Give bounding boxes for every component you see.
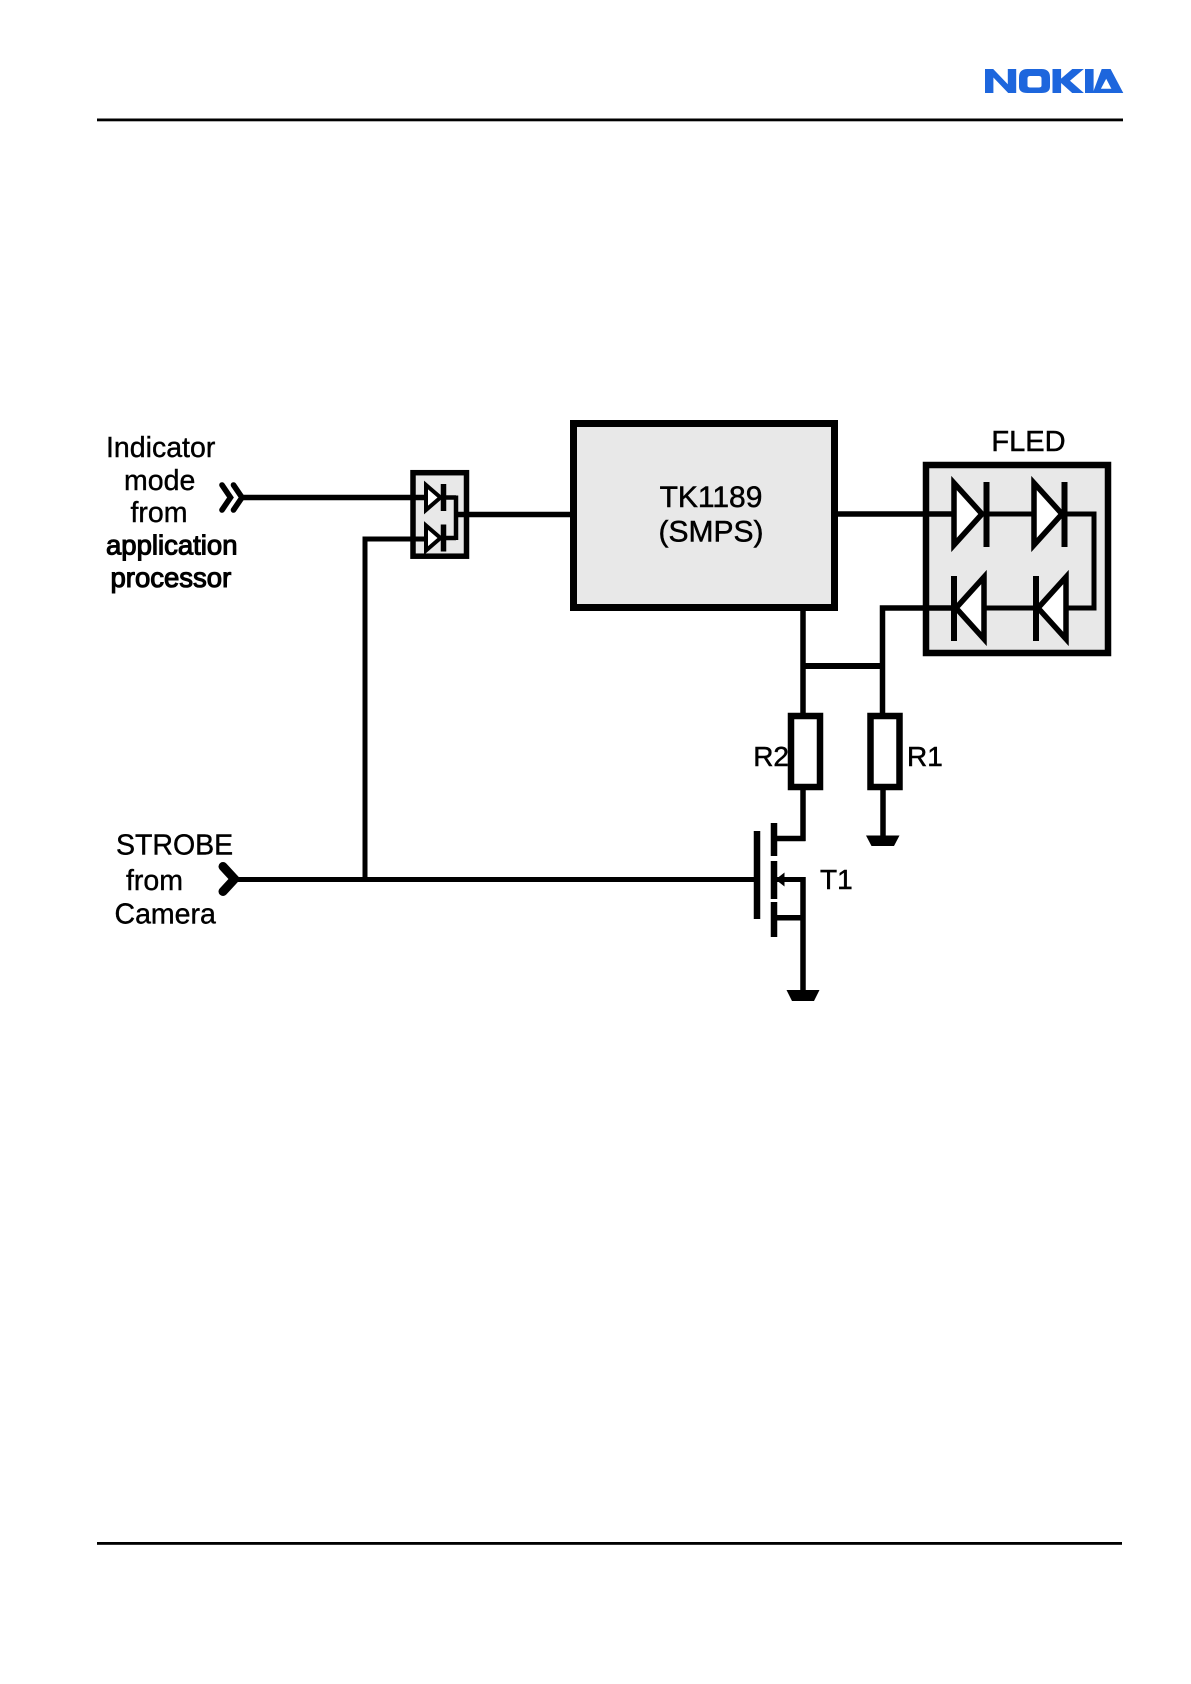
resistor R2 — [791, 716, 820, 787]
LED D3 (top-right) — [1034, 482, 1065, 547]
NOKIA logo — [985, 69, 1123, 93]
svg-text:R2: R2 — [753, 741, 789, 772]
ground (R1) — [866, 836, 900, 847]
footer rule — [97, 1542, 1122, 1545]
LED D2 (top-left) — [954, 482, 987, 547]
wire: TK1189 output to FLED — [835, 511, 956, 517]
svg-text:TK1189: TK1189 — [660, 481, 763, 514]
wire: R1 to ground — [880, 790, 886, 837]
header rule — [97, 119, 1123, 122]
svg-text:application: application — [106, 530, 237, 561]
wire: FLED internal bottom row — [982, 606, 1038, 611]
wire: strobe to T1 gate — [236, 877, 754, 882]
dual diode package D1 — [413, 473, 467, 557]
transistor T1 (N-MOSFET) — [757, 823, 806, 937]
wire: FLED internal top row — [984, 512, 1097, 517]
FLED module box — [926, 465, 1108, 653]
wire: T1 source to ground — [800, 877, 806, 991]
input arrow (STROBE) — [223, 867, 235, 892]
wire: D1 output to TK1189 — [454, 512, 573, 518]
wire: TK1189 feedback down to R2 — [800, 609, 806, 716]
svg-text:mode: mode — [124, 465, 195, 497]
input arrow (indicator mode) — [222, 485, 242, 510]
wire: jumper between R2 and R1 nodes — [801, 663, 886, 669]
svg-text:processor: processor — [111, 562, 232, 593]
wire: D1 internal bus — [444, 496, 457, 541]
svg-text:from: from — [131, 497, 188, 529]
ground (T1) — [787, 990, 820, 1001]
svg-text:from: from — [126, 865, 183, 897]
LED D5 (bottom-left, pointing left) — [954, 576, 984, 641]
body line with arrow — [777, 877, 806, 882]
resistor R1 — [871, 716, 900, 787]
svg-text:FLED: FLED — [991, 426, 1065, 458]
diode D1b — [426, 525, 444, 552]
IC U1 TK1189 (SMPS) — [574, 424, 835, 608]
wire: FLED right corner — [1064, 514, 1094, 608]
wire: R2 to T1 drain — [774, 790, 806, 841]
svg-text:(SMPS): (SMPS) — [659, 516, 764, 549]
wire: indicator input to D1 — [241, 495, 427, 501]
wire: FLED return to R1 node — [883, 608, 957, 716]
svg-text:Camera: Camera — [115, 899, 217, 931]
channel segments — [771, 823, 778, 856]
gate bar — [754, 831, 761, 919]
svg-text:STROBE: STROBE — [116, 830, 233, 862]
label: STROBE from Camera — [115, 830, 234, 931]
LED D4 (bottom-right, pointing left) — [1036, 576, 1066, 641]
source line — [774, 915, 806, 921]
svg-text:Indicator: Indicator — [106, 432, 216, 464]
svg-text:T1: T1 — [820, 864, 853, 895]
label: Indicator mode from application processor — [106, 432, 237, 593]
diode D1a — [426, 484, 444, 511]
wire: strobe branch up to D1b — [365, 539, 427, 879]
svg-text:R1: R1 — [907, 741, 943, 772]
